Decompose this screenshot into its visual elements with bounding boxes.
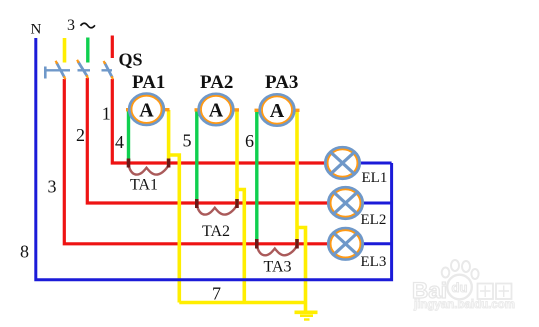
svg-text:N: N	[31, 22, 42, 38]
svg-text:TA1: TA1	[130, 177, 158, 194]
svg-text:QS: QS	[119, 50, 143, 70]
svg-text:EL1: EL1	[362, 170, 388, 186]
svg-text:jingyan.baidu.com: jingyan.baidu.com	[413, 299, 515, 311]
svg-text:3: 3	[48, 177, 57, 197]
svg-text:3: 3	[67, 17, 75, 34]
svg-text:EL2: EL2	[361, 212, 387, 228]
svg-text:7: 7	[212, 284, 221, 304]
svg-text:1: 1	[102, 104, 111, 124]
svg-text:du: du	[452, 280, 468, 295]
svg-text:A: A	[139, 100, 154, 122]
svg-text:PA3: PA3	[265, 72, 298, 93]
svg-text:EL3: EL3	[361, 254, 387, 270]
svg-text:A: A	[270, 100, 285, 122]
svg-text:8: 8	[20, 242, 29, 262]
svg-text:6: 6	[245, 131, 254, 151]
svg-text:4: 4	[115, 132, 124, 152]
svg-text:2: 2	[76, 125, 85, 145]
svg-text:TA2: TA2	[202, 223, 230, 240]
svg-text:A: A	[209, 100, 224, 122]
svg-text:5: 5	[183, 131, 192, 151]
svg-text:PA2: PA2	[200, 72, 233, 93]
svg-text:PA1: PA1	[132, 72, 165, 93]
svg-text:TA3: TA3	[263, 259, 291, 276]
